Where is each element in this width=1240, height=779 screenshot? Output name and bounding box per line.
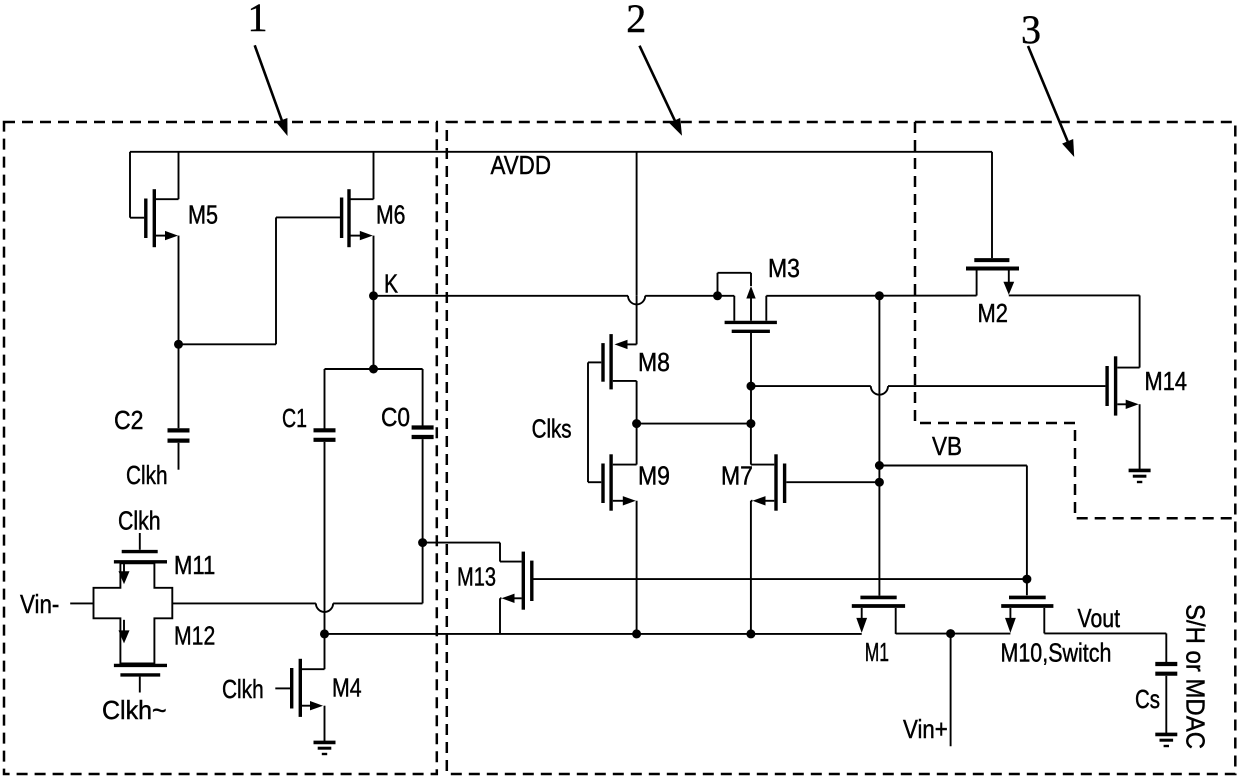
wire C0 tap to M13 drain [423, 543, 522, 562]
transistor M4 [275, 634, 324, 742]
label M13 [457, 562, 496, 592]
svg-text:M5: M5 [188, 200, 218, 230]
wire K rail [374, 295, 735, 297]
transistor M9 [588, 424, 637, 634]
net label Clks [532, 414, 572, 444]
dashed box 1 (stage 1 boundary) [4, 122, 437, 774]
label M6 [376, 200, 406, 230]
port Vin- [20, 589, 59, 619]
transistor M3 [718, 273, 777, 332]
capacitor Cs [1155, 664, 1177, 734]
transistor M13 [500, 552, 532, 634]
dashed box 3 inner boundary [915, 122, 1235, 518]
svg-text:Clkh~: Clkh~ [102, 695, 167, 725]
svg-text:K: K [384, 269, 399, 299]
svg-text:VB: VB [932, 431, 962, 461]
transistor M12 [114, 620, 167, 693]
net label Clkh~ at M12 [102, 695, 167, 725]
label Vout [1078, 603, 1121, 633]
transistor M6 [276, 152, 374, 369]
transistor M14 [1107, 295, 1140, 469]
svg-text:Clkh: Clkh [126, 460, 168, 490]
transistor M8 [588, 334, 637, 424]
svg-text:M6: M6 [376, 200, 406, 230]
transistor M1 [852, 597, 905, 634]
svg-text:M3: M3 [768, 253, 800, 283]
node M5 drain junction [174, 340, 183, 349]
svg-text:Clkh: Clkh [118, 506, 161, 536]
label Cs [1135, 684, 1160, 714]
svg-text:C2: C2 [114, 405, 144, 435]
svg-text:2: 2 [626, 0, 646, 41]
ground at M14 [1129, 470, 1151, 482]
port Vin+ [903, 714, 948, 744]
net label Clkh at C2 [126, 460, 168, 490]
node Vin+ junction [946, 629, 955, 638]
wire tail bus [325, 633, 862, 635]
wire VB to M10 gate [879, 466, 1027, 596]
wire M9 drain to M7 drain [637, 423, 751, 425]
transistor M11 [114, 533, 167, 584]
label M4 [332, 673, 362, 703]
node VB junction upper [875, 461, 884, 470]
label M5 [188, 200, 218, 230]
wire K rail segment M3 to M2 [766, 295, 976, 297]
label 3 [1021, 7, 1041, 52]
wire AVDD drop to M8 [636, 152, 638, 345]
wire AVDD rail [130, 152, 992, 218]
node M8/M9 junction [632, 419, 641, 428]
label M11 [174, 550, 215, 580]
arrow to box 3 [1028, 46, 1074, 157]
wire M5 drain to M6 gate [179, 217, 277, 344]
svg-text:M2: M2 [978, 298, 1009, 328]
svg-text:3: 3 [1021, 7, 1041, 52]
node M1 gate column top [875, 291, 884, 300]
svg-text:AVDD: AVDD [491, 150, 552, 180]
svg-text:Clkh: Clkh [222, 674, 264, 704]
svg-text:M4: M4 [332, 673, 362, 703]
node M7 drain junction [746, 419, 755, 428]
svg-text:M12: M12 [174, 621, 215, 651]
capacitor C1 [314, 430, 336, 634]
svg-text:M7: M7 [721, 461, 753, 491]
label M12 [174, 621, 215, 651]
wire M13 gate bus [534, 578, 1027, 580]
wire M2 source to M14 drain [1009, 294, 1140, 296]
svg-text:M14: M14 [1145, 366, 1188, 396]
node summing junction [320, 629, 329, 638]
label M3 [768, 253, 800, 283]
svg-text:Cs: Cs [1135, 684, 1160, 714]
label M8 [638, 347, 670, 377]
ground at M4 [314, 742, 336, 754]
svg-text:Vout: Vout [1078, 603, 1121, 633]
svg-text:C1: C1 [282, 403, 307, 433]
wire Clks gate link [587, 362, 589, 482]
dashed box 2 (stage 2 boundary) [447, 122, 1236, 774]
label 1 [248, 0, 268, 40]
net label Clkh at M4 [222, 674, 264, 704]
label M14 [1145, 366, 1188, 396]
label M2 [978, 298, 1009, 328]
switch body cross outline [94, 563, 173, 663]
label C0 [381, 402, 410, 432]
label M10,Switch [1001, 638, 1112, 668]
wire M1 gate column [878, 296, 880, 596]
node M9 tail junction [632, 629, 641, 638]
label K [384, 269, 399, 299]
svg-text:Clks: Clks [532, 414, 572, 444]
transistor M2 [966, 152, 1019, 296]
net label AVDD [491, 150, 552, 180]
svg-text:M11: M11 [174, 550, 215, 580]
node M7 gate junction [875, 478, 884, 487]
arrow to box 1 [255, 45, 288, 136]
svg-text:C0: C0 [381, 402, 410, 432]
label 2 [626, 0, 646, 41]
svg-text:M8: M8 [638, 347, 670, 377]
label C1 [282, 403, 307, 433]
label S/H or MDAC [1180, 604, 1210, 749]
svg-text:1: 1 [248, 0, 268, 40]
node C0 tap dot [418, 538, 427, 547]
node M3 body tie dot [713, 291, 722, 300]
wire Vin+ lead [950, 634, 952, 747]
capacitor C2 [168, 344, 190, 469]
transistor M5 [130, 152, 179, 344]
wire hop on K rail [628, 296, 645, 305]
wire M1 source to Vin+ node [896, 633, 1011, 635]
node M7 tail junction [746, 629, 755, 638]
wire C1/C0 top bar [325, 369, 423, 430]
net label Clkh at M11 [118, 506, 161, 536]
wire M3 gate to mirror node [750, 333, 752, 424]
arrow to box 2 [640, 46, 683, 136]
wire switch output [172, 602, 422, 604]
transistor M7 [751, 424, 880, 634]
node M3 gate junction [747, 382, 756, 391]
label M7 [721, 461, 753, 491]
label C2 [114, 405, 144, 435]
net label VB [932, 431, 962, 461]
wire hop over M1 gate column [871, 386, 888, 395]
wire M3 gate to M14 gate [751, 385, 1105, 387]
svg-text:M13: M13 [457, 562, 496, 592]
wire hop over C1 [316, 603, 333, 612]
svg-text:M9: M9 [638, 461, 670, 491]
ground at Cs [1155, 734, 1177, 746]
svg-text:S/H or MDAC: S/H or MDAC [1180, 604, 1210, 749]
label M9 [638, 461, 670, 491]
svg-text:M10,Switch: M10,Switch [1001, 638, 1112, 668]
node M10 gate junction [1022, 575, 1031, 584]
transistor M10 [1001, 597, 1053, 633]
node C1/C0 top junction [369, 365, 378, 374]
svg-text:Vin-: Vin- [20, 589, 59, 619]
svg-text:M1: M1 [865, 637, 889, 667]
label M1 [865, 637, 889, 667]
capacitor C0 [412, 428, 434, 604]
node K dot [369, 291, 378, 300]
wire Vin- lead [70, 602, 93, 604]
wire Vout [1044, 633, 1166, 662]
svg-text:Vin+: Vin+ [903, 714, 948, 744]
